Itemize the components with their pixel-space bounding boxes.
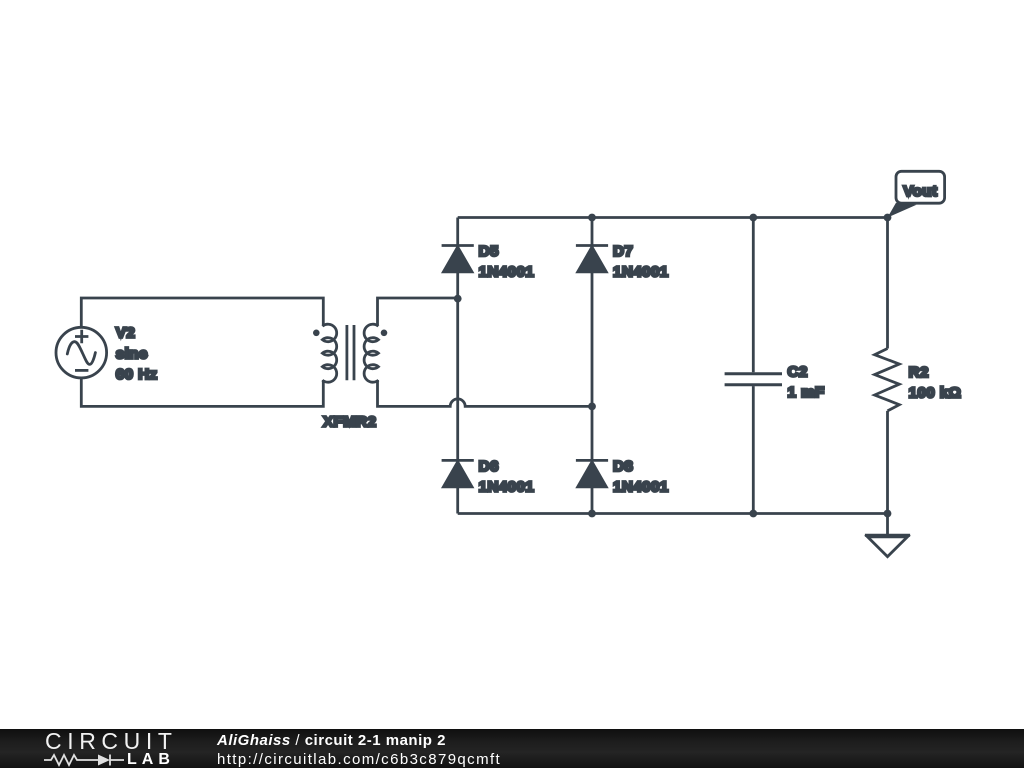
svg-text:Vout: Vout bbox=[903, 183, 937, 200]
svg-text:1N4001: 1N4001 bbox=[613, 264, 669, 281]
CircuitLab logo CIRCUIT bbox=[45, 730, 177, 753]
wire primary top: V2 top to transformer primary bbox=[81, 298, 323, 329]
wire resistor bottom bbox=[886, 411, 889, 514]
svg-text:D5: D5 bbox=[479, 243, 499, 260]
svg-text:1N4001: 1N4001 bbox=[613, 479, 669, 496]
capacitor C2 plates bbox=[725, 374, 782, 385]
junction node C2 bottom rail bbox=[749, 510, 757, 518]
wire top rail bbox=[458, 216, 888, 219]
junction node D7 top rail bbox=[588, 214, 596, 222]
transformer XFMR2 secondary winding bbox=[364, 324, 378, 382]
junction node Vout bbox=[884, 214, 892, 222]
diode D7 bbox=[576, 246, 608, 272]
V2 sine waveform symbol bbox=[67, 342, 95, 365]
wire ground stub bbox=[886, 514, 889, 536]
wire primary bottom: transformer primary to V2 bottom bbox=[81, 377, 323, 406]
V2 plus sign bbox=[75, 330, 88, 343]
svg-text:R2: R2 bbox=[909, 364, 929, 381]
junction node ground bbox=[884, 510, 892, 518]
svg-text:100 kΩ: 100 kΩ bbox=[909, 385, 962, 402]
voltage source V2 circle bbox=[56, 327, 107, 378]
svg-text:V2: V2 bbox=[116, 325, 135, 342]
wire resistor top bbox=[886, 218, 889, 349]
svg-text:60 Hz: 60 Hz bbox=[116, 366, 158, 383]
svg-text:D7: D7 bbox=[613, 243, 633, 260]
transformer XFMR2 primary winding bbox=[322, 324, 336, 382]
resistor R2 zigzag bbox=[875, 349, 900, 411]
transformer primary phase dot bbox=[313, 330, 320, 337]
diode D6 bbox=[442, 460, 474, 486]
CircuitLab logo resistor-diode glyph bbox=[44, 753, 126, 767]
svg-text:XFMR2: XFMR2 bbox=[323, 413, 376, 430]
svg-text:1N4001: 1N4001 bbox=[479, 264, 535, 281]
svg-text:sine: sine bbox=[116, 345, 148, 362]
svg-text:C2: C2 bbox=[788, 363, 808, 380]
node flag Vout box bbox=[896, 171, 945, 203]
wire bottom rail bbox=[458, 512, 888, 515]
wire bridge left vertical bbox=[456, 218, 459, 514]
ground symbol bbox=[865, 535, 910, 556]
junction node C2 top rail bbox=[749, 214, 757, 222]
svg-text:1N4001: 1N4001 bbox=[479, 479, 535, 496]
svg-text:D6: D6 bbox=[479, 458, 499, 475]
V2 minus sign bbox=[75, 369, 88, 372]
junction node secondary-bridge-left bbox=[454, 295, 462, 303]
footer credit text bbox=[217, 732, 501, 769]
wire capacitor bottom bbox=[752, 386, 755, 513]
wire secondary top: transformer to bridge left bbox=[378, 298, 458, 326]
wire secondary bottom with hop over bridge left wire bbox=[378, 380, 593, 406]
wire capacitor top bbox=[752, 218, 755, 373]
CircuitLab logo LAB bbox=[127, 752, 175, 768]
junction node D8 bottom rail bbox=[588, 510, 596, 518]
diode D8 bbox=[576, 460, 608, 486]
svg-text:D8: D8 bbox=[613, 458, 633, 475]
footer bar bbox=[0, 729, 1024, 768]
diode D5 bbox=[442, 246, 474, 272]
transformer XFMR2 core lines bbox=[347, 325, 354, 380]
junction node middle wire to bridge right bbox=[588, 403, 596, 411]
node flag Vout pointer bbox=[888, 203, 917, 218]
svg-text:1 mF: 1 mF bbox=[788, 384, 825, 401]
wire bridge right vertical bbox=[591, 218, 594, 514]
transformer secondary phase dot bbox=[381, 330, 388, 337]
